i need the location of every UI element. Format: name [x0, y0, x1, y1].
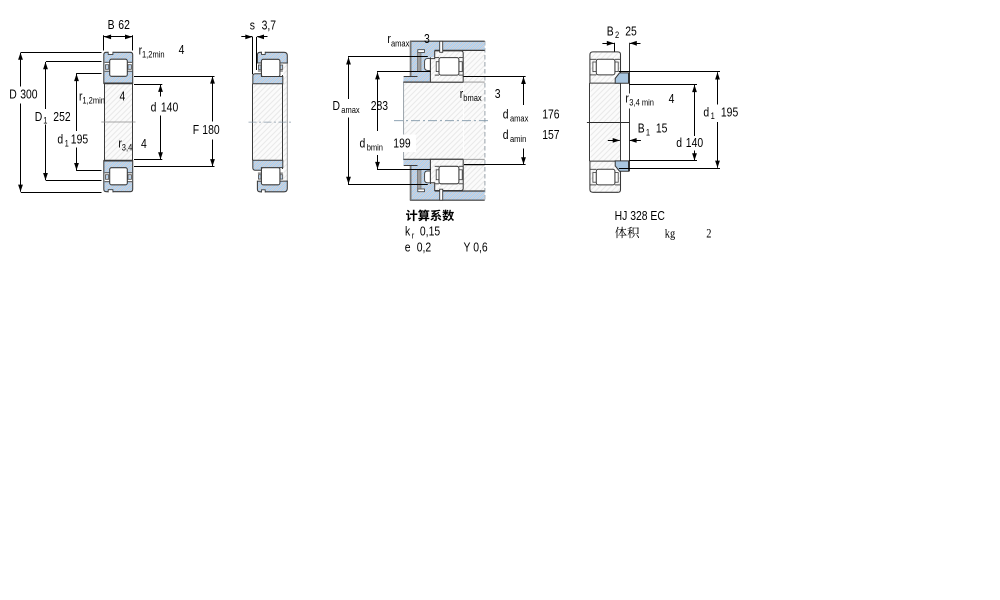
svg-text:r: r	[412, 230, 415, 241]
footer: calculation factors	[406, 210, 454, 222]
svg-text:HJ 328 EC: HJ 328 EC	[615, 209, 666, 223]
svg-text:0,2: 0,2	[417, 240, 431, 254]
svg-text:4: 4	[120, 90, 126, 104]
svg-text:amin: amin	[510, 133, 527, 144]
svg-text:d: d	[703, 105, 709, 119]
svg-text:0,15: 0,15	[420, 224, 441, 238]
svg-text:D: D	[35, 110, 43, 124]
svg-text:e: e	[405, 240, 411, 254]
svg-text:195: 195	[71, 133, 89, 147]
abutment face line	[629, 43, 631, 94]
svg-text:r: r	[625, 91, 629, 105]
svg-text:bmax: bmax	[463, 92, 482, 103]
footer: HJ ring designation and mass	[615, 209, 666, 223]
dim Damax 283	[348, 56, 428, 58]
svg-text:B: B	[108, 18, 115, 32]
HJ angle ring top (blue)	[615, 73, 628, 83]
svg-text:d: d	[360, 137, 366, 151]
svg-text:1: 1	[65, 138, 69, 149]
dim s 3,7	[252, 37, 254, 74]
svg-text:1: 1	[711, 110, 715, 121]
svg-text:k: k	[405, 224, 410, 238]
svg-text:4: 4	[141, 137, 147, 151]
svg-text:199: 199	[393, 137, 410, 151]
svg-text:3: 3	[424, 32, 430, 46]
bearing section top (view3)	[430, 51, 463, 82]
svg-text:252: 252	[53, 110, 70, 124]
label r12min mid	[79, 89, 83, 103]
dim D1 252	[46, 61, 102, 63]
svg-text:amax: amax	[341, 104, 360, 115]
svg-text:Y: Y	[464, 240, 471, 254]
svg-text:300: 300	[20, 87, 38, 101]
dim d 140	[134, 84, 162, 86]
label r12min top	[139, 43, 143, 57]
label r34	[118, 136, 122, 150]
svg-text:4: 4	[669, 92, 675, 106]
svg-text:D: D	[9, 87, 17, 101]
dim B2 25	[614, 43, 616, 52]
svg-text:2: 2	[706, 226, 711, 240]
svg-text:amax: amax	[510, 113, 529, 124]
label ramax 3	[387, 32, 391, 46]
svg-text:d: d	[503, 128, 509, 142]
dim damax 176 / damin 157	[464, 76, 526, 78]
dim dbmin 199	[377, 71, 431, 73]
svg-text:F: F	[193, 123, 199, 137]
view1: NJ bearing cross-section front view	[101, 52, 135, 193]
housing and shaft shoulder top (hatched)	[403, 41, 484, 82]
svg-text:d: d	[503, 107, 509, 121]
svg-text:3: 3	[495, 87, 501, 101]
svg-text:B: B	[638, 122, 645, 136]
svg-text:d: d	[676, 136, 682, 150]
svg-text:62: 62	[118, 18, 130, 32]
svg-text:283: 283	[371, 99, 389, 113]
svg-text:140: 140	[686, 136, 704, 150]
svg-text:3,4: 3,4	[122, 142, 133, 153]
svg-text:4: 4	[179, 43, 185, 57]
dim d1 195 (view4)	[619, 71, 720, 73]
view2: axial cross-section with s dim	[249, 52, 294, 193]
svg-text:2: 2	[615, 29, 619, 40]
svg-text:1,2min: 1,2min	[142, 49, 165, 60]
dim B 62	[103, 35, 105, 50]
dim B1 15	[608, 140, 620, 142]
dim D 300	[21, 52, 102, 54]
HJ angle ring bottom (blue)	[615, 161, 628, 171]
svg-text:176: 176	[542, 107, 560, 121]
dim F 180	[134, 76, 215, 78]
svg-text:1,2min: 1,2min	[82, 95, 105, 106]
svg-text:3,7: 3,7	[262, 18, 276, 32]
svg-text:D: D	[333, 99, 341, 113]
svg-text:1: 1	[646, 127, 650, 138]
svg-text:B: B	[607, 24, 614, 38]
svg-text:15: 15	[656, 122, 668, 136]
svg-text:3,4 min: 3,4 min	[629, 97, 654, 108]
label r34min 4	[625, 91, 629, 105]
svg-text:140: 140	[161, 100, 179, 114]
view3: mounted bearing, abutment dims	[394, 41, 490, 200]
svg-text:157: 157	[542, 128, 559, 142]
housing and shaft shoulder bottom (hatched)	[403, 159, 484, 200]
svg-text:195: 195	[721, 105, 739, 119]
svg-text:d: d	[57, 133, 63, 147]
view4: bearing with HJ angle ring	[587, 52, 629, 192]
label rbmax 3	[460, 87, 464, 101]
svg-text:1: 1	[43, 115, 47, 126]
dim d1 195	[76, 73, 101, 75]
svg-text:s: s	[250, 18, 255, 32]
svg-text:180: 180	[202, 123, 220, 137]
svg-text:bmin: bmin	[367, 142, 384, 153]
svg-text:0,6: 0,6	[473, 240, 488, 254]
svg-text:d: d	[151, 100, 157, 114]
svg-text:kg: kg	[665, 226, 675, 240]
dim d 140 (view4)	[629, 84, 697, 86]
svg-text:25: 25	[625, 24, 637, 38]
bearing section bottom (view3)	[430, 159, 463, 190]
svg-text:amax: amax	[391, 38, 410, 49]
